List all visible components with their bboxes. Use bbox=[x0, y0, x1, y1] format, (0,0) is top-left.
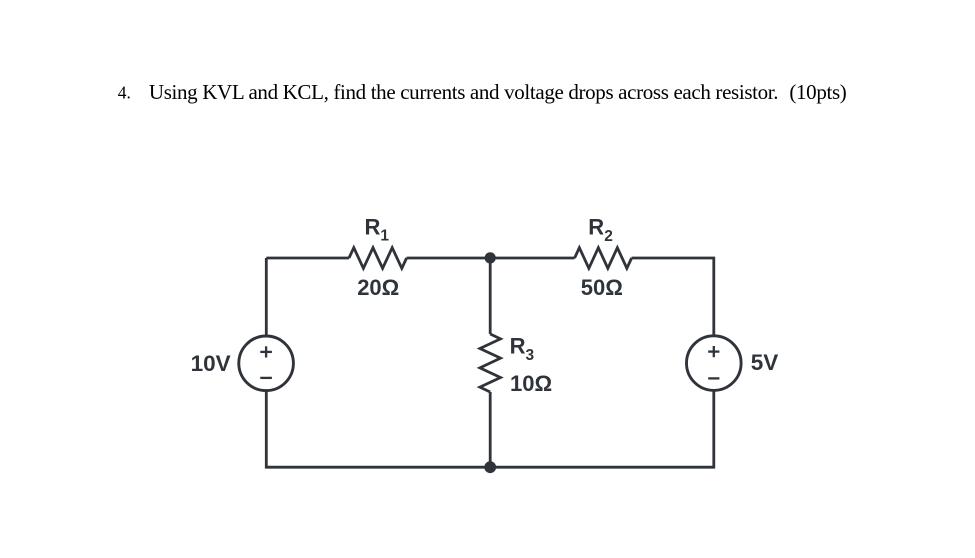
V2 plus sign bbox=[708, 346, 719, 357]
wire: bottom, node B to bottom-left corner and up to V1 bbox=[266, 390, 496, 467]
voltage source V1 circle bbox=[239, 336, 294, 391]
wire: V2 bottom to bottom-right corner bbox=[496, 390, 714, 467]
svg-text:Using KVL and KCL, find the cu: Using KVL and KCL, find the currents and… bbox=[149, 80, 778, 104]
V2 minus sign bbox=[708, 377, 719, 379]
resistor R2 bbox=[575, 248, 632, 269]
wire: R1 to node A bbox=[407, 257, 575, 260]
node A junction dot bbox=[485, 252, 496, 263]
wire: R3 to node B bbox=[489, 392, 492, 467]
V1 minus sign bbox=[260, 377, 272, 379]
wire: V1 top to top-left corner bbox=[265, 258, 268, 337]
resistor R3 bbox=[480, 334, 501, 392]
wire: node A down to R3 bbox=[489, 258, 492, 334]
svg-text:4.: 4. bbox=[118, 83, 131, 103]
wire: top-left horizontal, V1 to R1 bbox=[266, 257, 349, 260]
svg-text:10Ω: 10Ω bbox=[510, 371, 552, 396]
svg-text:5V: 5V bbox=[751, 350, 779, 375]
resistor R1 bbox=[349, 248, 407, 269]
node B junction dot bbox=[484, 461, 496, 473]
wire: R2 to top-right corner and down to V2 bbox=[632, 258, 714, 336]
V1 plus sign bbox=[260, 346, 272, 357]
voltage source V2 circle bbox=[687, 336, 742, 391]
problem statement text bbox=[118, 80, 847, 104]
svg-text:20Ω: 20Ω bbox=[357, 275, 399, 300]
svg-text:50Ω: 50Ω bbox=[581, 275, 623, 300]
svg-text:10V: 10V bbox=[191, 351, 231, 376]
svg-text:(10pts): (10pts) bbox=[789, 80, 846, 104]
